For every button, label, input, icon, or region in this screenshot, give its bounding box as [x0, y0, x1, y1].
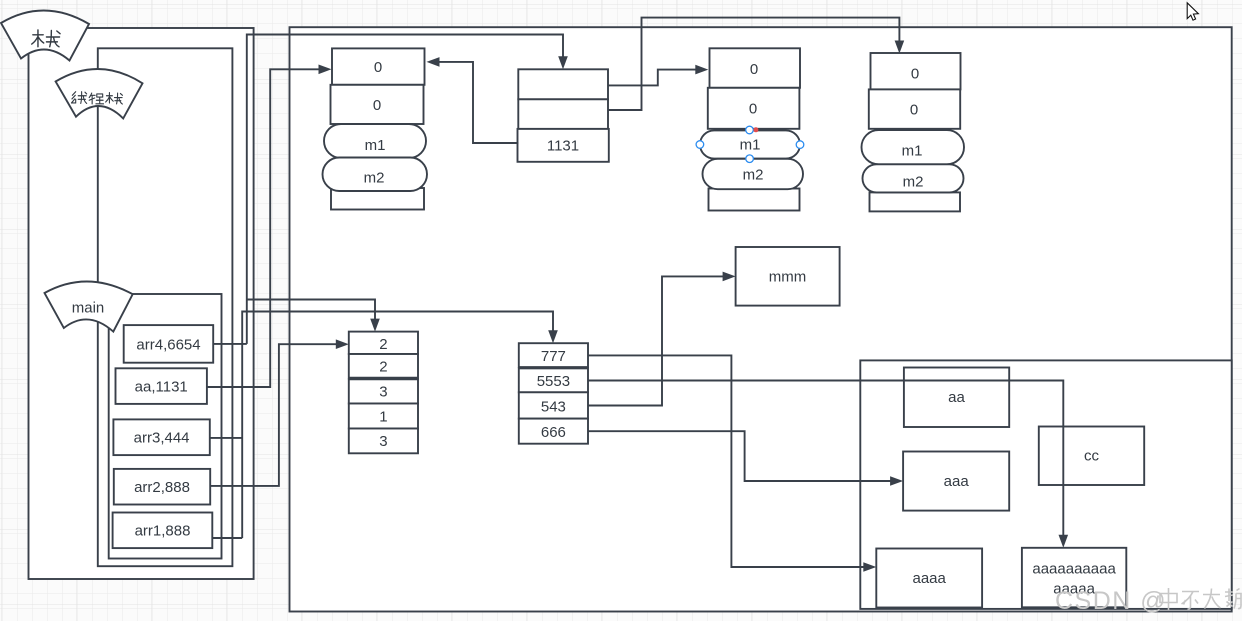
box aa,1131 [116, 368, 207, 404]
object B row 2 [518, 99, 608, 129]
svg-text:m2: m2 [743, 167, 764, 184]
watermark glyph 中 [1160, 588, 1177, 610]
svg-text:0: 0 [373, 97, 381, 114]
object A row 0 (second) [331, 85, 424, 124]
svg-text:3: 3 [379, 383, 387, 400]
object D bottom empty row [870, 192, 961, 211]
svg-text:aaa: aaa [944, 473, 970, 490]
wire 777 to aaaa left [588, 355, 869, 567]
wire tee run at 299.5, down into array1 top [247, 300, 375, 325]
mouse cursor [1187, 3, 1198, 20]
svg-text:m1: m1 [740, 137, 761, 154]
wire arr2,888 to array1 left [210, 344, 341, 486]
object C row 0 (second) [708, 88, 800, 129]
watermark glyph 鹅 [1225, 589, 1241, 609]
fan shape 线程栈 (thread stack label) [56, 69, 143, 118]
arrowhead right into object C left [695, 65, 708, 75]
doubled row boundary in array2 [519, 366, 588, 369]
wire 666 to aaa left [588, 431, 896, 481]
watermark glyph 东 [1182, 592, 1200, 610]
wire riser to 1131-object, top run, down into object B [247, 35, 563, 344]
selection handle right on object C m1 [796, 141, 804, 149]
arrowhead right into object A left [319, 65, 332, 75]
red endpoint dot on object C m1 [753, 127, 758, 132]
box arr1,888 [113, 513, 213, 549]
container main (inner box) [109, 294, 222, 559]
box mmm [736, 247, 840, 306]
wire 543 to mmm [588, 276, 729, 405]
svg-text:m2: m2 [364, 170, 385, 187]
svg-text:arr4,6654: arr4,6654 [136, 336, 200, 353]
svg-text:0: 0 [750, 61, 758, 78]
svg-text:aa,1131: aa,1131 [135, 378, 188, 395]
wire arr3 stub [210, 437, 242, 439]
box arr3,444 [113, 419, 209, 455]
arrowhead right into mmm left [723, 272, 736, 282]
box arr2,888 [114, 469, 210, 505]
wire arr4 stub [214, 343, 247, 345]
svg-text:1131: 1131 [547, 138, 579, 155]
box aaaaaaaaaa aaaaa [1022, 548, 1126, 608]
object D row 0 (second) [869, 89, 960, 128]
object A m1 stadium [324, 124, 426, 158]
watermark glyph 大 [1203, 589, 1221, 609]
svg-text:arr3,444: arr3,444 [134, 430, 190, 447]
glyph 线程栈 in middle fan [71, 92, 122, 104]
object C m1 stadium [700, 130, 800, 158]
box cc [1039, 427, 1144, 486]
doubled row boundary in array1 [349, 377, 418, 380]
arrowhead left into object A right [427, 57, 440, 67]
object D m2 stadium [863, 164, 964, 192]
svg-text:m1: m1 [902, 143, 923, 160]
object B (1131) row 1 [518, 69, 608, 99]
fan shape 栈 (stack label) [1, 10, 89, 60]
svg-text:543: 543 [541, 398, 566, 415]
svg-text:arr2,888: arr2,888 [134, 479, 190, 496]
object C m2 stadium [703, 159, 804, 189]
object A row 0 (top) [332, 48, 425, 84]
svg-text:5553: 5553 [537, 373, 570, 390]
svg-text:3: 3 [379, 433, 387, 450]
svg-text:m1: m1 [365, 137, 386, 154]
arrowhead right into aaa left [890, 476, 903, 486]
svg-text:0: 0 [910, 102, 918, 119]
svg-text:cc: cc [1084, 448, 1100, 465]
arrowhead down into object B top [558, 56, 568, 69]
svg-text:666: 666 [541, 424, 566, 441]
svg-text:CSDN @: CSDN @ [1055, 587, 1167, 615]
container heap (big right box) [290, 27, 1232, 611]
box arr4,6654 [124, 325, 214, 363]
object C row 0 (top) [710, 48, 801, 88]
box aaa [903, 452, 1009, 511]
arrowhead right into array1 left [336, 339, 349, 349]
object C bottom empty row [709, 189, 800, 211]
container inner-right region box [860, 360, 1231, 609]
svg-text:main: main [72, 300, 105, 317]
svg-text:0: 0 [749, 101, 757, 118]
svg-text:0: 0 [911, 66, 919, 83]
array1 column box rows 2,2,3,1,3 [349, 332, 418, 354]
svg-text:777: 777 [541, 348, 566, 365]
object D m1 stadium [862, 130, 965, 164]
box aaaa [876, 549, 982, 608]
wire object B row2 to object D top [608, 18, 899, 110]
svg-text:aa: aa [948, 389, 965, 406]
svg-text:2: 2 [379, 359, 387, 376]
wire riser at 242 up, run right, down into array2 top [242, 312, 553, 539]
svg-text:0: 0 [374, 59, 382, 76]
selection handle left on object C m1 [696, 141, 704, 149]
container 线程栈 (middle box) [98, 48, 233, 566]
object D row 0 (top) [871, 53, 961, 89]
arrowhead down into array1 top [370, 319, 380, 332]
svg-text:aaaaaaaaaa: aaaaaaaaaa [1032, 561, 1116, 578]
fan shape main [45, 281, 133, 331]
container 栈 (outer stack box) [29, 28, 254, 579]
selection handle top on object C m1 [746, 126, 754, 134]
arrowhead down into object D top [895, 41, 905, 54]
wire aa,1131 to object A left [207, 69, 324, 387]
wire 5553 to aaaaaaaaaa box top [588, 381, 1063, 541]
wire object B row1 to object C left [608, 70, 702, 86]
svg-text:m2: m2 [903, 174, 924, 191]
glyph 栈 in top fan [32, 30, 60, 47]
svg-text:2: 2 [379, 336, 387, 353]
svg-text:aaaa: aaaa [913, 570, 947, 587]
array2 column box rows 777,5553,543,666 [519, 343, 588, 367]
svg-text:1: 1 [379, 408, 387, 425]
object B row 3 value 1131 [518, 129, 609, 162]
object A m2 stadium [323, 158, 428, 192]
selection handle bottom on object C m1 [746, 155, 754, 163]
object A bottom empty row [331, 188, 424, 210]
arrowhead right into aaaa left [863, 562, 876, 572]
arrowhead down into array2 top [548, 330, 558, 343]
wire object B row3 (1131) to object A right, arrow left [434, 62, 519, 143]
svg-text:mmm: mmm [769, 268, 807, 285]
arrowhead down into aaaaaaaaaa box top [1059, 535, 1069, 548]
box aa [904, 368, 1009, 428]
wire arr1 stub [212, 537, 242, 539]
svg-text:arr1,888: arr1,888 [135, 523, 191, 540]
